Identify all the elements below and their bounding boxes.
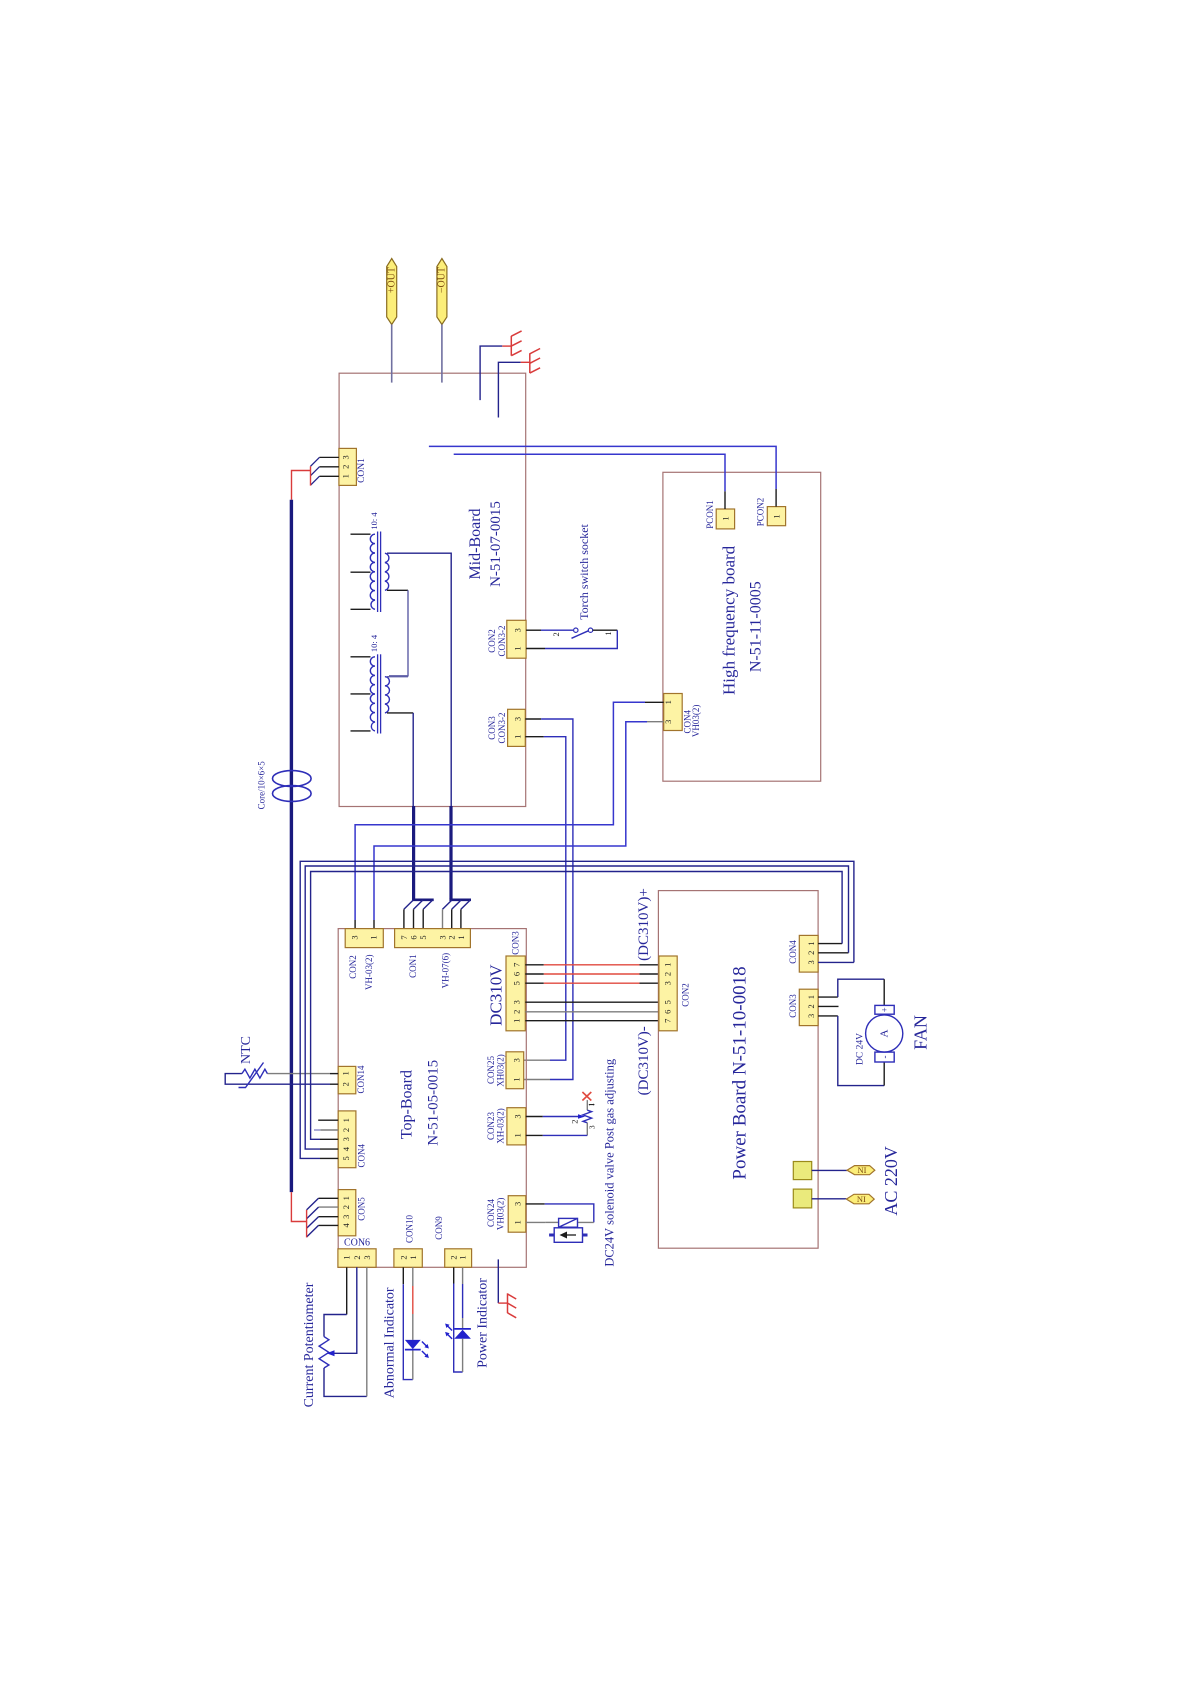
svg-text:1: 1 [340, 474, 350, 478]
Mid-Board title text [467, 501, 504, 587]
post gas adjusting potentiometer [526, 1100, 595, 1135]
svg-text:CON1: CON1 [357, 458, 367, 483]
svg-text:Power Board N-51-10-0018: Power Board N-51-10-0018 [729, 966, 750, 1179]
svg-text:1: 1 [720, 516, 730, 520]
connector PCON1 [705, 500, 734, 529]
NTC thermistor circuit [225, 1063, 338, 1088]
+OUT port flag [386, 259, 397, 325]
svg-text:2: 2 [806, 1004, 816, 1008]
svg-text:VH03(2): VH03(2) [691, 705, 701, 738]
svg-text:Top-Board: Top-Board [399, 1070, 416, 1139]
torch switch circuit [526, 628, 617, 649]
svg-text:FAN: FAN [911, 1015, 931, 1050]
connector CON3 (Power Board right) [788, 989, 818, 1025]
svg-text:CON3: CON3 [511, 931, 521, 955]
svg-text:CON23: CON23 [486, 1112, 496, 1141]
NI flag 1 [847, 1165, 875, 1175]
svg-text:N-51-05-0015: N-51-05-0015 [425, 1060, 441, 1146]
svg-text:7: 7 [399, 935, 409, 939]
connector CON1 (Mid-Board) [339, 448, 367, 485]
svg-text:CON4: CON4 [788, 940, 798, 964]
svg-text:CON3-2: CON3-2 [497, 713, 507, 744]
connector CON25 / XH03(2) (Top-Board right) [486, 1052, 524, 1089]
svg-text:1: 1 [456, 935, 466, 939]
svg-text:VH-03(2): VH-03(2) [364, 955, 374, 991]
svg-text:CON10: CON10 [405, 1215, 415, 1244]
connector CON6 (Top-Board bottom) [338, 1238, 376, 1268]
svg-text:CON9: CON9 [434, 1216, 444, 1240]
wire HF CON4 pin3 to CON2 top-board pin1 [374, 722, 664, 929]
wires CON3 top-board to CON2 power board (red rows) [525, 965, 659, 983]
svg-text:10: 4: 10: 4 [369, 512, 379, 530]
red bus segment at CON1 [292, 466, 311, 500]
svg-text:1: 1 [513, 646, 523, 650]
ground symbol 2 (red) [530, 349, 540, 374]
current potentiometer circuit [319, 1267, 367, 1396]
Top-Board title [399, 1060, 442, 1146]
svg-text:1: 1 [458, 1255, 468, 1259]
CON4 pin1 stub [318, 1119, 338, 1121]
fan motor [866, 1005, 903, 1062]
svg-text:Current Potentiometer: Current Potentiometer [302, 1282, 317, 1407]
svg-text:2: 2 [341, 1082, 351, 1086]
svg-text:1: 1 [513, 1220, 523, 1224]
core cable thick line [290, 500, 293, 1192]
svg-text:2: 2 [569, 1119, 579, 1123]
svg-text:1: 1 [341, 1071, 351, 1075]
svg-text:+: + [879, 1007, 889, 1012]
svg-text:2: 2 [340, 465, 350, 469]
svg-text:1: 1 [603, 631, 613, 635]
wire PCON2 long horizontal [429, 446, 776, 506]
T2 secondary top tap [387, 676, 408, 678]
thick lead 2 with foot (to CON1 pins 3 2 1) [449, 806, 471, 900]
svg-text:VH03(2): VH03(2) [496, 1198, 506, 1231]
wire PCON1 long horizontal [454, 454, 725, 509]
svg-text:1: 1 [512, 1077, 522, 1081]
svg-text:1: 1 [663, 700, 673, 704]
connector CON1 / VH-07(6) (Top-Board top) [395, 929, 471, 989]
wire bundle power CON4 pin1 to top CON4 pin3 [311, 872, 843, 1140]
wire to ground symbol 3 [498, 1259, 507, 1303]
connector CON4 (Power Board right) [788, 935, 818, 972]
svg-text:3: 3 [341, 1215, 351, 1219]
svg-text:2: 2 [341, 1128, 351, 1132]
svg-text:DC24V solenoid valve: DC24V solenoid valve [603, 1152, 617, 1267]
wire to ground symbol 2 [498, 362, 529, 417]
abnormal indicator LED circuit [403, 1267, 429, 1379]
svg-text:1: 1 [806, 941, 816, 945]
svg-text:CON3: CON3 [788, 994, 798, 1018]
svg-text:6: 6 [662, 1010, 672, 1014]
svg-text:7: 7 [662, 1019, 672, 1023]
svg-text:3: 3 [513, 1114, 523, 1118]
connector CON4 / VH03(2) (High freq board) [663, 694, 701, 738]
svg-text:DC310V: DC310V [486, 964, 505, 1026]
svg-text:5: 5 [341, 1156, 351, 1160]
connector CON24 / VH03(2) (Top-Board right) [486, 1196, 526, 1233]
svg-text:N-51-11-0005: N-51-11-0005 [748, 581, 765, 672]
svg-text:−OUT: −OUT [437, 267, 448, 293]
CON3 pin2 stub [818, 1005, 838, 1007]
ground symbol 1 (red) [511, 331, 521, 356]
svg-text:1: 1 [662, 963, 672, 967]
svg-text:CON3: CON3 [487, 716, 497, 740]
svg-text:1: 1 [341, 1196, 351, 1200]
svg-text:3: 3 [512, 1058, 522, 1062]
svg-text:7: 7 [512, 963, 522, 967]
connector CON10 (Top-Board bottom) [394, 1215, 422, 1268]
svg-text:(DC310V)+: (DC310V)+ [636, 888, 652, 961]
svg-text:Post gas adjusting: Post gas adjusting [603, 1058, 617, 1149]
svg-text:1: 1 [513, 1133, 523, 1137]
AC input square 2 [793, 1189, 811, 1208]
svg-text:Core/10×6×5: Core/10×6×5 [257, 761, 267, 810]
post gas adjusting trimmer cross [582, 1092, 591, 1101]
svg-text:1: 1 [513, 735, 523, 739]
svg-text:CON3-2: CON3-2 [497, 626, 507, 657]
fan wiring CON3 pin1 to motor plus [818, 979, 884, 1005]
AC input square 1 [793, 1162, 811, 1180]
connector CON14 (Top-Board left) [338, 1065, 366, 1094]
svg-text:DC 24V: DC 24V [856, 1033, 866, 1065]
svg-text:(DC310V)-: (DC310V)- [636, 1026, 652, 1095]
svg-text:1: 1 [587, 1102, 596, 1106]
svg-text:3: 3 [512, 1000, 522, 1004]
svg-text:CON25: CON25 [486, 1056, 496, 1085]
solenoid valve body [549, 1228, 587, 1243]
svg-text:CON1: CON1 [408, 954, 418, 978]
svg-text:3: 3 [513, 1202, 523, 1206]
svg-text:2: 2 [662, 972, 672, 976]
svg-text:A: A [878, 1029, 890, 1037]
wire from -OUT into Mid-Board [441, 325, 443, 383]
svg-text:NI: NI [857, 1194, 866, 1204]
T1 primary taps [351, 534, 371, 609]
wire bundle power CON4 pin3 to top CON4 pin5 [300, 861, 854, 1158]
Power Board outline [658, 891, 818, 1249]
svg-text:2: 2 [341, 1205, 351, 1209]
svg-text:Mid-Board: Mid-Board [467, 508, 484, 579]
svg-text:1: 1 [341, 1118, 351, 1122]
svg-text:AC 220V: AC 220V [881, 1146, 901, 1216]
fan wiring CON3 pin3 to motor minus [818, 1016, 884, 1086]
pin stubs CON1 top-board [404, 909, 461, 928]
svg-text:PCON1: PCON1 [705, 500, 715, 529]
svg-text:2: 2 [398, 1255, 408, 1259]
svg-text:1: 1 [806, 995, 816, 999]
svg-text:4: 4 [341, 1223, 351, 1228]
svg-text:PCON2: PCON2 [756, 498, 766, 527]
Mid-Board outline [339, 373, 526, 806]
red bus segment at CON5 [291, 1192, 306, 1237]
wire bundle power CON4 pin2 to top CON4 pin4 [305, 866, 848, 1149]
connector CON5 (Top-Board left) [338, 1190, 366, 1236]
svg-text:5: 5 [512, 981, 522, 985]
svg-text:3: 3 [350, 935, 360, 939]
CON4 pin2 stub [314, 1129, 338, 1131]
svg-text:5: 5 [418, 935, 428, 939]
High frequency board title [720, 545, 765, 695]
power indicator LED circuit [445, 1267, 471, 1372]
svg-text:CON24: CON24 [486, 1199, 496, 1228]
ground symbol 3 (red, bottom) [508, 1293, 517, 1318]
svg-text:NTC: NTC [239, 1036, 254, 1064]
svg-text:1: 1 [342, 1255, 352, 1259]
wire CON3 mid pin3 to CON25 pin1 [524, 719, 573, 1080]
svg-text:High frequency board: High frequency board [720, 545, 739, 695]
svg-text:XH-03(2): XH-03(2) [496, 1108, 506, 1144]
transformer T2 [370, 654, 389, 733]
svg-text:1: 1 [408, 1255, 418, 1259]
svg-text:VH-07(6): VH-07(6) [441, 953, 451, 989]
svg-text:5: 5 [662, 1000, 672, 1004]
svg-text:10: 4: 10: 4 [369, 634, 379, 652]
svg-text:CON2: CON2 [681, 983, 691, 1007]
connector CON4 (Top-Board left) [338, 1111, 366, 1168]
svg-text:+OUT: +OUT [386, 267, 397, 293]
CON1 bundle entry diagonals [311, 457, 320, 485]
svg-text:3: 3 [587, 1125, 596, 1129]
wire from +OUT into Mid-Board [391, 325, 393, 383]
svg-text:2: 2 [806, 951, 816, 955]
svg-text:6: 6 [409, 935, 419, 939]
svg-text:3: 3 [662, 981, 672, 985]
svg-text:3: 3 [513, 628, 523, 632]
svg-text:3: 3 [806, 1014, 816, 1018]
wire square2 to NI flag 2 [812, 1198, 847, 1200]
connector CON3 (Top-Board right) [506, 931, 525, 1031]
-OUT port flag [437, 259, 448, 325]
connector CON23 / XH-03(2) (Top-Board right) [486, 1108, 526, 1145]
svg-text:3: 3 [362, 1255, 372, 1259]
svg-text:CON2: CON2 [348, 955, 358, 979]
bundle diagonals to CON1 top-board pins 7 6 5 [404, 900, 433, 909]
thick lead 1 with foot (to CON1 pins 7 6 5) [412, 806, 434, 900]
NI flag 2 [846, 1194, 874, 1204]
wires CON3 top-board to CON2 power board (dark rows) [525, 1002, 659, 1021]
svg-text:CON5: CON5 [357, 1197, 367, 1221]
svg-text:3: 3 [341, 1137, 351, 1141]
svg-text:1: 1 [512, 1019, 522, 1023]
transformer T1 [370, 532, 389, 613]
svg-text:-: - [879, 1056, 889, 1059]
svg-text:Abnormal Indicator: Abnormal Indicator [382, 1287, 397, 1398]
T1 secondary bottom tap wire [387, 590, 408, 676]
connector CON3 / CON3-2 (Mid-Board right) [487, 709, 525, 746]
wire square1 to NI flag 1 [812, 1169, 847, 1171]
svg-text:CON14: CON14 [356, 1065, 366, 1094]
svg-text:3: 3 [513, 717, 523, 721]
CON5 bundle entry diagonals [307, 1198, 319, 1237]
svg-text:3: 3 [663, 720, 673, 724]
connector CON9 (Top-Board bottom) [434, 1216, 472, 1268]
svg-text:2: 2 [551, 632, 561, 636]
connector PCON2 [756, 498, 786, 527]
svg-text:CON2: CON2 [487, 629, 497, 653]
svg-text:N-51-07-0015: N-51-07-0015 [488, 501, 504, 587]
connector CON2 / CON3-2 (Mid-Board right) [487, 620, 526, 658]
svg-text:2: 2 [352, 1255, 362, 1259]
svg-text:3: 3 [806, 960, 816, 964]
svg-text:6: 6 [512, 972, 522, 976]
svg-text:1: 1 [771, 514, 781, 518]
solenoid valve coil [559, 1218, 578, 1227]
svg-text:Power Indicator: Power Indicator [476, 1278, 491, 1368]
svg-text:2: 2 [512, 1010, 522, 1014]
Top-Board outline [338, 929, 526, 1268]
svg-text:CON6: CON6 [344, 1238, 370, 1249]
T1 secondary top tap wire to thick line [387, 553, 451, 806]
CON5 pin stubs [319, 1198, 339, 1225]
wire HF CON4 pin1 to CON2 top-board pin3 [355, 702, 664, 928]
bundle diagonals to CON1 top-board pins 3 2 1 [443, 900, 471, 909]
svg-text:3: 3 [340, 455, 350, 459]
T2 primary taps [351, 657, 371, 731]
svg-text:XH03(2): XH03(2) [496, 1054, 506, 1087]
svg-text:CON4: CON4 [356, 1143, 366, 1167]
svg-text:4: 4 [341, 1146, 351, 1151]
CON1 pin stubs [319, 457, 339, 476]
svg-text:NI: NI [858, 1165, 867, 1175]
wire CON3 mid pin1 to CON25 pin3 [524, 737, 566, 1060]
solenoid valve circuit wires [526, 1204, 594, 1223]
wire to ground symbol 1 [480, 346, 511, 400]
T2 secondary bottom tap wire to thick line [387, 713, 413, 807]
High frequency board outline [663, 472, 821, 781]
svg-text:1: 1 [369, 935, 379, 939]
connector CON2 / VH-03(2) (Top-Board top) [345, 929, 383, 990]
svg-text:Torch switch socket: Torch switch socket [577, 523, 591, 619]
connector CON2 (Power Board left) [659, 956, 691, 1031]
core ferrite ellipses [273, 771, 312, 802]
